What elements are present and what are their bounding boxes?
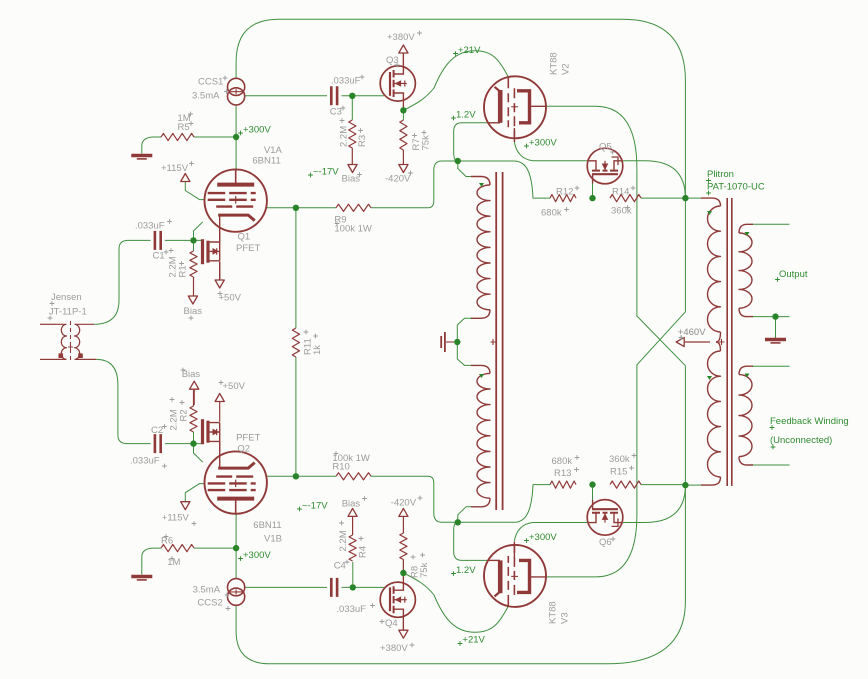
svg-text:V1A: V1A bbox=[264, 145, 283, 156]
wire C3/R3 junction down bbox=[351, 96, 353, 120]
wire cathode winding centre tap lower bbox=[457, 342, 471, 365]
wire Q5 to R12/R14 junction bbox=[592, 184, 594, 199]
wire KT88 V3 screen (+300V) to Q6 bbox=[514, 523, 587, 542]
wire Q4 source to KT88 V3 grid (+21V) bbox=[403, 573, 508, 632]
label R8 75k bbox=[410, 553, 431, 578]
svg-text:Q5: Q5 bbox=[599, 142, 612, 153]
wire C1 to Q1 gate / R1 junction bbox=[165, 239, 202, 241]
transistor Q6 MOSFET clamp bbox=[587, 500, 623, 536]
label Q2 bbox=[236, 433, 260, 455]
svg-text:Bias: Bias bbox=[342, 498, 361, 509]
wire R6 to +300V junction bbox=[142, 548, 236, 574]
label +115V bottom bbox=[162, 513, 197, 526]
label C1 bbox=[153, 250, 169, 262]
resistor R3 2.2M bbox=[349, 120, 356, 164]
label R4 2.2M bbox=[338, 521, 369, 558]
label V2 bbox=[549, 52, 572, 75]
capacitor C3 .033uF bbox=[331, 86, 337, 105]
junction C1/R1/grid bbox=[190, 237, 196, 243]
transistor Q4 MOSFET bbox=[380, 582, 415, 617]
wire V1A plate to CCS1 (+300V node) bbox=[235, 105, 237, 170]
net label +300V (V2 screen) bbox=[524, 137, 557, 148]
resistor R5 1M bbox=[161, 133, 194, 140]
wire primary top junction to winding bbox=[685, 197, 701, 199]
junction C3/R3/Q3 bbox=[349, 93, 355, 99]
transistor Q2 PFET bbox=[203, 419, 220, 444]
resistor R2 2.2M bbox=[190, 390, 197, 432]
svg-text:+50V: +50V bbox=[219, 293, 242, 304]
svg-text:680k: 680k bbox=[552, 456, 573, 467]
label Jensen bbox=[50, 292, 82, 306]
label R2 2.2M bbox=[169, 397, 190, 430]
supply +50V bottom bbox=[215, 394, 224, 422]
wire V2 cathode node to R12 bbox=[458, 161, 550, 198]
supply +115V bottom bbox=[181, 502, 190, 510]
svg-text:R15: R15 bbox=[610, 467, 627, 478]
junction V2 cathode node bbox=[455, 158, 461, 164]
svg-text:100k 1W: 100k 1W bbox=[334, 224, 372, 235]
label Q6 bbox=[599, 537, 615, 548]
svg-text:2.2M: 2.2M bbox=[339, 126, 350, 147]
resistor R15 360k bbox=[610, 481, 641, 488]
vacuum tube V1A 6BN11 bbox=[205, 169, 267, 241]
wire R11 bottom lead bbox=[295, 357, 297, 476]
wire feedback winding bottom bbox=[752, 464, 790, 466]
polarity dot cathode winding upper bbox=[479, 183, 484, 187]
junction V1B out/R11 bbox=[293, 473, 299, 479]
svg-text:PFET: PFET bbox=[236, 243, 260, 254]
svg-text:+460V: +460V bbox=[678, 327, 706, 338]
label V1A bbox=[252, 145, 282, 167]
junction output ground bbox=[772, 313, 778, 319]
svg-text:R2: R2 bbox=[179, 409, 190, 421]
wire KT88 V2 plate to X crossing bbox=[546, 106, 637, 168]
wire Q4 source to R8 bbox=[402, 561, 404, 580]
transistor Q5 MOSFET clamp bbox=[587, 148, 623, 184]
resistor R9 100k 1W bbox=[336, 204, 371, 211]
wire output ground stem bbox=[775, 317, 777, 338]
supply +380V top bbox=[399, 45, 408, 66]
wire KT88 V2 screen (+300V) to Q5 bbox=[514, 142, 587, 161]
svg-text:R3: R3 bbox=[357, 135, 368, 147]
svg-text:PFET: PFET bbox=[236, 433, 260, 444]
svg-text:.033uF: .033uF bbox=[336, 604, 366, 615]
svg-text:.033uF: .033uF bbox=[331, 76, 361, 87]
label Output bbox=[775, 269, 808, 282]
resistor R1 2.2M bbox=[190, 251, 197, 296]
svg-text:C4: C4 bbox=[334, 561, 346, 572]
svg-text:Q2: Q2 bbox=[237, 444, 250, 455]
svg-text:V1B: V1B bbox=[264, 534, 282, 545]
wire C2 node to V1B grid bbox=[194, 444, 203, 463]
wire Q6 to R13/R15 junction bbox=[592, 485, 594, 500]
svg-text:360k: 360k bbox=[609, 454, 630, 465]
junction +300V/R6 bbox=[233, 545, 239, 551]
wire CCS2 output to C4 and Q4 gate bbox=[245, 586, 384, 588]
wire +115V to V1A screen bbox=[185, 182, 205, 200]
svg-text:~-17V: ~-17V bbox=[302, 500, 328, 511]
vacuum tube V1B 6BN11 bbox=[205, 442, 267, 514]
svg-text:+300V: +300V bbox=[529, 532, 557, 543]
wire C2 to Q2 gate / R2 junction bbox=[165, 443, 202, 445]
label Feedback Winding bbox=[770, 416, 849, 430]
label R10 100k 1W bbox=[332, 451, 370, 473]
wire Q3 source to KT88 V2 grid (+21V) bbox=[403, 51, 508, 111]
supply +115V top bbox=[181, 174, 190, 182]
supply Bias (R3) bbox=[348, 165, 357, 173]
label JT-11P-1 bbox=[48, 307, 87, 321]
wire cathode winding centre tap upper bbox=[457, 318, 471, 342]
polarity dot cathode winding lower bbox=[479, 374, 484, 378]
supply +460V bbox=[676, 337, 710, 346]
current source CCS1 3.5mA bbox=[228, 78, 245, 105]
svg-text:R12: R12 bbox=[556, 187, 573, 198]
wire Q4 drain stub bbox=[402, 617, 404, 630]
label Q3 bbox=[386, 55, 399, 67]
svg-text:Bias: Bias bbox=[184, 306, 203, 317]
polarity dot feedback bbox=[745, 374, 750, 378]
svg-text:1.2V: 1.2V bbox=[456, 565, 476, 576]
resistor R4 2.2M bbox=[349, 517, 356, 561]
wire output winding top bbox=[752, 223, 790, 225]
svg-text:V3: V3 bbox=[560, 612, 571, 624]
svg-text:+380V: +380V bbox=[387, 32, 415, 43]
svg-text:Q4: Q4 bbox=[385, 618, 398, 629]
net label +300V (V3 screen) bbox=[524, 532, 557, 543]
ground (R5) bbox=[131, 156, 152, 159]
wire Q6 drain to primary bottom junction bbox=[623, 485, 686, 522]
capacitor C2 .033uF bbox=[155, 434, 161, 453]
svg-text:6BN11: 6BN11 bbox=[253, 520, 281, 531]
transistor Q3 MOSFET bbox=[380, 66, 415, 101]
resistor R11 1k bbox=[292, 328, 299, 357]
label C3 bbox=[330, 106, 346, 118]
wire CCS2 bottom to output transformer primary bottom (bootstrap loop, lower) bbox=[236, 366, 685, 664]
transistor Q1 PFET bbox=[203, 239, 220, 264]
label +115V top bbox=[161, 161, 194, 174]
svg-text:CCS1: CCS1 bbox=[198, 77, 223, 88]
wire R10 to V3 cathode node bbox=[371, 476, 458, 522]
net label 1.2V (V2 cathode) bbox=[451, 110, 476, 121]
vacuum tube V3 KT88 bbox=[484, 545, 546, 607]
svg-text:.033uF: .033uF bbox=[135, 221, 165, 232]
net label +21V (V3 grid) bbox=[458, 635, 486, 646]
svg-text:.033uF: .033uF bbox=[130, 455, 160, 466]
svg-text:+21V: +21V bbox=[458, 45, 481, 56]
svg-text:Jensen: Jensen bbox=[51, 292, 82, 303]
svg-text:1.2V: 1.2V bbox=[456, 110, 476, 121]
supply +380V bottom bbox=[399, 617, 408, 638]
junction Q3 source/R7 bbox=[400, 107, 406, 113]
svg-text:Q1: Q1 bbox=[238, 232, 251, 243]
label -420V bottom bbox=[391, 496, 423, 509]
svg-text:C3: C3 bbox=[330, 107, 342, 118]
label Bias (R4) bbox=[342, 496, 367, 509]
net label +21V (V2 grid) bbox=[453, 45, 481, 56]
label R9 100k 1W bbox=[334, 214, 372, 234]
wire R15 to primary bottom junction bbox=[641, 484, 685, 486]
net label 1.2V (V3 cathode) bbox=[451, 565, 476, 576]
label Bias (R1) bbox=[184, 306, 203, 320]
wire Q3 source to R7 bbox=[402, 104, 404, 120]
terminal cathode winding centre tap bbox=[441, 332, 454, 352]
junction C4/R4/Q4 bbox=[350, 584, 356, 590]
wire CCS1 output to C3 and Q3 gate bbox=[245, 95, 384, 97]
wire V1B output to R10 bbox=[266, 475, 336, 477]
wire R9 to V2 cathode node bbox=[371, 161, 458, 208]
junction V3 cathode node bbox=[455, 519, 461, 525]
wire Q3 source stub bbox=[402, 101, 404, 110]
svg-text:R10: R10 bbox=[332, 462, 349, 473]
net label -17V (bottom) bbox=[297, 500, 328, 511]
svg-text:6BN11: 6BN11 bbox=[252, 156, 280, 167]
junction C2/R2/grid bbox=[190, 440, 196, 446]
wire R14 to primary top junction bbox=[641, 197, 685, 199]
label R7 75k bbox=[411, 130, 432, 150]
label R12 680k bbox=[541, 186, 579, 219]
current source CCS2 3.5mA bbox=[228, 579, 245, 606]
svg-text:KT88: KT88 bbox=[549, 52, 560, 75]
svg-text:Output: Output bbox=[779, 269, 808, 280]
wire R11 top lead bbox=[295, 208, 297, 328]
net label +300V (V1B) bbox=[238, 550, 271, 561]
wire C1 node to V1A grid bbox=[194, 222, 203, 241]
wire V3 cathode node to cathode winding bottom bbox=[458, 507, 471, 523]
svg-text:+21V: +21V bbox=[462, 635, 485, 646]
wire input transformer to C2 bbox=[96, 359, 150, 443]
vacuum tube V2 KT88 bbox=[484, 76, 546, 138]
transformer Plitron PAT-1070-UC output bbox=[701, 198, 753, 486]
label Bias (R2) bbox=[181, 368, 201, 381]
wire feedback winding top bbox=[752, 365, 790, 367]
svg-text:1k: 1k bbox=[312, 345, 323, 355]
label +380V top bbox=[387, 31, 422, 43]
label +50V top bbox=[218, 291, 242, 303]
svg-text:R14: R14 bbox=[612, 187, 629, 198]
svg-text:+300V: +300V bbox=[529, 137, 557, 148]
wire R2 bottom lead bbox=[193, 432, 195, 444]
label +50V bottom bbox=[219, 380, 246, 392]
wire Q1 source to +50V bbox=[219, 262, 221, 280]
resistor R12 680k bbox=[550, 195, 576, 202]
svg-text:+300V: +300V bbox=[243, 124, 271, 135]
svg-text:+115V: +115V bbox=[162, 513, 190, 524]
polarity dot primary lower bbox=[707, 376, 712, 380]
label +460V bbox=[678, 327, 706, 340]
wire Q2 drain to V1B cathode bbox=[219, 441, 221, 452]
resistor R14 360k bbox=[610, 195, 641, 202]
resistor R8 75k bbox=[400, 517, 407, 574]
wire C4/R4 junction up bbox=[352, 562, 354, 587]
label R3 2.2M bbox=[339, 118, 369, 147]
supply -420V top bbox=[399, 165, 408, 173]
svg-text:Bias: Bias bbox=[342, 174, 361, 185]
svg-text:-420V: -420V bbox=[391, 498, 417, 509]
label -420V top bbox=[385, 171, 413, 185]
svg-text:+380V: +380V bbox=[380, 643, 408, 654]
svg-text:Bias: Bias bbox=[182, 369, 201, 380]
label +460V bbox=[678, 327, 706, 340]
svg-text:Plitron: Plitron bbox=[707, 169, 734, 180]
wire V3 screen stub bbox=[513, 542, 515, 558]
wire primary bottom junction to winding bbox=[685, 484, 701, 486]
label V1B bbox=[253, 520, 282, 545]
wire V1A output to R9 bbox=[266, 207, 336, 209]
wire V3 plate vertical into X crossing bbox=[637, 312, 686, 515]
wire V2 plate vertical into X crossing bbox=[637, 169, 686, 366]
label Plitron bbox=[706, 169, 765, 195]
wire Q5 drain to primary top junction bbox=[623, 161, 686, 198]
winding cathode (unity-coupled) with centre tap bbox=[471, 172, 503, 510]
svg-text:CCS2: CCS2 bbox=[197, 598, 222, 609]
svg-text:C1: C1 bbox=[153, 251, 165, 262]
svg-text:R4: R4 bbox=[358, 546, 369, 558]
supply +50V top bbox=[215, 262, 224, 289]
wire +115V to V1B screen bbox=[185, 484, 205, 502]
svg-text:Feedback Winding: Feedback Winding bbox=[770, 416, 849, 427]
resistor R10 100k 1W bbox=[336, 473, 371, 480]
label C1 value bbox=[135, 219, 172, 231]
label R6 bbox=[161, 534, 180, 568]
label Unconnected bbox=[770, 435, 832, 449]
wire V1B plate to CCS2 (+300V node) bbox=[235, 514, 237, 579]
supply -420V bottom bbox=[399, 508, 408, 516]
ground (output winding) bbox=[765, 340, 786, 343]
label CCS1 bbox=[192, 76, 229, 102]
junction V1A out/R11 bbox=[293, 205, 299, 211]
supply Bias (R2) bbox=[190, 381, 199, 405]
wire Q3 drain stub bbox=[402, 54, 404, 67]
wire KT88 V3 plate to X crossing bbox=[546, 515, 637, 577]
supply Bias (R1) bbox=[188, 296, 197, 304]
label +380V bottom bbox=[380, 643, 414, 654]
wire V3 cathode node to R13 bbox=[458, 485, 550, 523]
svg-text:2.2M: 2.2M bbox=[338, 530, 349, 551]
svg-text:-420V: -420V bbox=[385, 174, 411, 185]
label CCS2 bbox=[193, 584, 231, 611]
polarity dot primary upper bbox=[707, 211, 712, 215]
wire Q1 drain to V1A cathode bbox=[219, 231, 221, 242]
label R11 1k bbox=[303, 330, 324, 355]
net label +300V (V1A) bbox=[238, 124, 271, 135]
junction primary top bbox=[682, 195, 688, 201]
svg-text:(Unconnected): (Unconnected) bbox=[770, 435, 832, 446]
svg-text:+115V: +115V bbox=[161, 163, 189, 174]
svg-text:C2: C2 bbox=[151, 425, 163, 436]
junction Q6/R13/R15 bbox=[589, 481, 595, 487]
svg-text:Q6: Q6 bbox=[599, 537, 612, 548]
label C4 bbox=[334, 560, 350, 572]
label Q5 bbox=[599, 142, 615, 155]
label C4 value bbox=[336, 603, 375, 615]
svg-text:PAT-1070-UC: PAT-1070-UC bbox=[707, 182, 765, 193]
svg-text:3.5mA: 3.5mA bbox=[192, 91, 220, 102]
junction primary bottom bbox=[682, 482, 688, 488]
wire Q4 source stub bbox=[402, 574, 404, 583]
wire KT88 V2 cathode to node bbox=[454, 123, 489, 161]
junction Q5/R12/R14 bbox=[589, 195, 595, 201]
svg-text:75k: 75k bbox=[419, 562, 430, 578]
capacitor C4 .033uF bbox=[331, 578, 337, 597]
svg-text:75k: 75k bbox=[421, 135, 432, 151]
svg-text:+300V: +300V bbox=[243, 550, 271, 561]
label Q1 bbox=[236, 232, 260, 254]
label C3 value bbox=[331, 75, 365, 87]
wire input transformer to C1 bbox=[94, 240, 150, 324]
net label -17V (top) bbox=[308, 167, 339, 178]
junction cathode winding tap bbox=[454, 339, 460, 345]
svg-text:R13: R13 bbox=[554, 468, 571, 479]
svg-text:+50V: +50V bbox=[223, 381, 246, 392]
label R14 360k bbox=[611, 186, 635, 217]
wire output winding bottom to ground bbox=[752, 316, 790, 318]
svg-text:3.5mA: 3.5mA bbox=[193, 584, 221, 595]
svg-text:KT88: KT88 bbox=[548, 601, 559, 624]
label R15 360k bbox=[609, 453, 636, 477]
wire V2 screen stub bbox=[513, 128, 515, 142]
label C2 value bbox=[130, 455, 167, 468]
wire CCS1 top to output transformer primary top (bootstrap loop, upper) bbox=[236, 19, 685, 312]
wire R1 top lead bbox=[193, 240, 195, 251]
label V3 bbox=[548, 601, 571, 624]
label Q4 bbox=[380, 618, 398, 629]
ground (R6) bbox=[131, 577, 152, 580]
svg-text:JT-11P-1: JT-11P-1 bbox=[49, 307, 87, 318]
polarity dot secondary bbox=[745, 232, 750, 236]
wire V2 cathode node to cathode winding top bbox=[458, 161, 471, 177]
supply Bias (R4) bbox=[348, 508, 357, 516]
resistor R13 680k bbox=[550, 481, 576, 488]
label C2 bbox=[151, 424, 167, 436]
label R5 1M bbox=[178, 112, 194, 133]
svg-text:R5: R5 bbox=[178, 122, 190, 133]
svg-text:680k: 680k bbox=[541, 208, 562, 219]
label Bias (R3) bbox=[342, 172, 362, 184]
capacitor C1 .033uF bbox=[155, 231, 161, 250]
transformer T1 Jensen JT-11P-1 bbox=[40, 321, 96, 362]
junction +300V/R5 bbox=[233, 134, 239, 140]
wire KT88 V3 cathode to node bbox=[454, 522, 489, 560]
svg-text:V2: V2 bbox=[561, 63, 572, 75]
svg-text:R1: R1 bbox=[178, 265, 189, 277]
resistor R7 75k bbox=[400, 120, 407, 164]
label R1 2.2M bbox=[168, 248, 189, 277]
svg-text:~-17V: ~-17V bbox=[313, 167, 339, 178]
wire R5 to +300V junction bbox=[142, 137, 236, 154]
junction Q4 source/R8 bbox=[400, 570, 406, 576]
resistor R6 1M bbox=[161, 545, 194, 552]
label R13 680k bbox=[552, 455, 580, 479]
